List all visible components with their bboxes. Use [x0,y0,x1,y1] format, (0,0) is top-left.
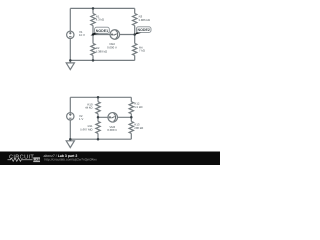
wire right branch circuit 1 [133,8,135,13]
ground circuit 2 [69,139,71,141]
label VM3 value [107,126,117,132]
svg-text:R11: R11 [88,125,93,128]
voltage source V1 [67,31,74,38]
node tag NODE1 [90,27,109,36]
wire middle branch circuit 1 [92,8,94,13]
label V2 value [79,115,83,121]
resistor R4 [133,43,137,55]
svg-text:44 kΩ: 44 kΩ [85,106,92,110]
voltage source V2 [67,113,74,120]
svg-text:R12: R12 [134,103,139,106]
svg-text:R3: R3 [139,16,143,19]
label R10 value [85,104,92,110]
svg-text:http://circuitlab.com/c/p2w7n2: http://circuitlab.com/c/p2w7n2jm34xx [45,158,98,162]
label R4 value [139,46,145,52]
voltmeter VM2 [110,30,120,40]
svg-text:R2: R2 [96,47,100,50]
svg-text:CIRCUIT: CIRCUIT [9,154,34,160]
resistor R1 [91,14,95,26]
wire top circuit 1 [70,7,134,9]
svg-text:1.5 kΩ: 1.5 kΩ [134,106,142,110]
svg-text:10 V: 10 V [79,33,85,37]
svg-text:200 kΩ: 200 kΩ [134,126,143,130]
wire right branch circuit 2 [130,97,132,101]
label R2 value [96,47,107,53]
svg-text:5.389 kΩ: 5.389 kΩ [96,50,107,54]
resistor R10 [96,102,100,114]
svg-text:R4: R4 [139,46,143,49]
voltmeter VM3 [108,113,118,123]
resistor R12 [129,102,133,114]
svg-text:0.000 V: 0.000 V [107,46,117,49]
node tag NODE2 [135,27,151,35]
svg-text:1 V: 1 V [79,118,83,121]
wire bottom circuit 2 [70,138,131,140]
svg-text:altenz7 / Lab 3 part 2: altenz7 / Lab 3 part 2 [44,154,78,158]
label R12 value [134,103,142,109]
svg-text:NODE1: NODE1 [96,28,108,33]
svg-text:5.806 kΩ: 5.806 kΩ [139,18,150,22]
footer logo LAB box [33,157,40,162]
wire bottom circuit 1 [70,59,134,61]
svg-text:7 kΩ: 7 kΩ [139,49,145,53]
svg-text:LAB: LAB [33,159,40,163]
wire left branch circuit 2 [69,97,71,112]
ground circuit 1 [69,60,71,63]
svg-text:VM3: VM3 [109,126,115,129]
footer bar [0,152,220,166]
resistor R3 [133,14,137,26]
footer logo resistor zigzag [8,158,33,161]
label VM2 value [107,43,117,49]
svg-text:NODE2: NODE2 [138,28,150,32]
junction dots [69,7,136,140]
wire middle branch circuit 2 [97,97,99,101]
resistor R2 [91,43,95,55]
svg-text:4.3 kΩ: 4.3 kΩ [96,18,104,22]
svg-text:R13: R13 [134,124,139,127]
svg-text:VM2: VM2 [109,43,115,46]
wire voltmeter VM3 [98,116,131,118]
wire voltmeter VM2 [93,33,135,35]
wire left branch circuit 1 [69,8,71,31]
wire top circuit 2 [70,96,131,98]
svg-text:5.667 MΩ: 5.667 MΩ [80,129,92,132]
resistor R13 [129,121,133,133]
label R3 value [139,16,150,22]
label R13 value [134,124,143,130]
svg-text:0.000 V: 0.000 V [107,129,117,132]
svg-text:R1: R1 [96,15,100,18]
label R1 value [96,15,104,21]
label V1 value [79,31,85,37]
resistor R11 [96,121,100,133]
label R11 value [80,125,92,132]
